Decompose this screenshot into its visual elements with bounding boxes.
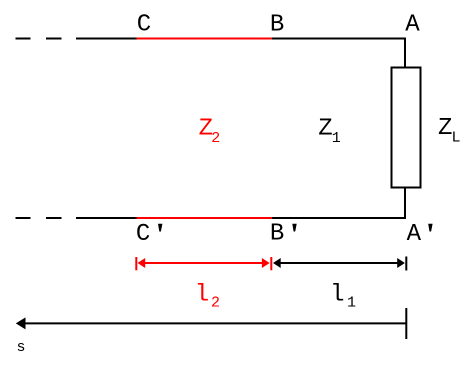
dimension l2: left arrowhead (138, 258, 146, 268)
svg-text:l: l (330, 281, 344, 308)
svg-text:C: C (137, 11, 151, 38)
svg-text:s: s (17, 339, 26, 356)
wire top black segment left of C (76, 38, 137, 40)
wire top red segment C to B (line Z2 section) (137, 38, 272, 40)
svg-text:A: A (407, 221, 422, 248)
wire vertical from load ZL down to node A' (404, 188, 406, 220)
svg-text:Z: Z (438, 115, 452, 142)
wire top dashed lead segment 1 (16, 38, 31, 40)
wire bottom red segment C' to B' (137, 217, 272, 219)
svg-text:l: l (195, 281, 209, 308)
svg-text:L: L (452, 129, 461, 146)
dimension l1: line (280, 262, 398, 264)
svg-text:B: B (270, 220, 284, 247)
dimension l1: right end tick at A' (405, 257, 407, 271)
wire bottom black segment B' to A' (272, 217, 406, 219)
svg-text:1: 1 (332, 130, 341, 147)
wire bottom dashed lead segment 1 (16, 217, 31, 219)
svg-text:A: A (405, 11, 420, 38)
wire top dashed lead segment 2 (46, 38, 62, 40)
dimension l2: left end tick at C' (135, 257, 137, 270)
svg-text:C: C (136, 221, 150, 248)
dimension l2: right arrowhead (262, 258, 270, 268)
distance axis s: line (20, 322, 406, 324)
svg-text:2: 2 (211, 130, 220, 147)
dimension l1: left arrowhead (273, 258, 281, 268)
wire vertical from node A down to load ZL (404, 38, 406, 68)
dimension l2: right end tick at B' (270, 257, 272, 270)
dimension l2: line (144, 262, 263, 264)
svg-text:2: 2 (211, 295, 220, 312)
wire top black segment B to A (line Z1 section) (272, 38, 406, 40)
svg-text:1: 1 (347, 294, 356, 311)
distance axis s: right end tick at A' (405, 308, 407, 339)
svg-text:Z: Z (318, 116, 332, 143)
wire bottom black segment left of C' (76, 217, 137, 219)
distance axis s: left arrowhead (16, 317, 26, 329)
svg-text:B: B (270, 11, 284, 38)
load resistor ZL body (392, 68, 421, 188)
dimension l1: right arrowhead (397, 258, 405, 268)
wire bottom dashed lead segment 2 (46, 217, 62, 219)
